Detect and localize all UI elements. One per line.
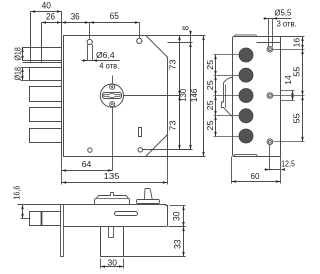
dim line 16,6 (22, 205, 24, 219)
ext line left edge down (231, 157, 233, 184)
svg-text:73: 73 (168, 59, 178, 70)
svg-text:12,5: 12,5 (281, 158, 295, 168)
bottom edge extension right (168, 156, 206, 158)
svg-text:40: 40 (42, 0, 51, 11)
dim line 40 (31, 11, 62, 13)
arrow O6.4 left (83, 59, 88, 62)
ext line circle center y=55.0 (214, 54, 240, 56)
faceplate back line (bottom view) (63, 205, 65, 257)
extension line 40-dim x=30.7 (30, 12, 32, 63)
svg-text:30: 30 (171, 212, 181, 222)
slot in body (bottom view) (115, 212, 138, 216)
ext line bottom right x=167.8 (167, 157, 169, 185)
ext line box right down (123, 259, 125, 269)
dim line 12,5 (265, 169, 281, 171)
arrow 16,6 bottom inside (21, 214, 24, 219)
bolt B1 (top, O18) (23, 48, 62, 61)
keyhole slot (dogbone) (104, 94, 120, 98)
dim line 60 (232, 181, 281, 183)
horizontal centerline to right (124, 95, 180, 97)
hole A O6.4 top-left (87, 39, 92, 44)
ext line body top right (170, 205, 186, 207)
dim line O18 top bolt (22, 48, 24, 61)
key cylinder outer circle (100, 84, 123, 107)
ext line bottom left x=61.4 (61, 157, 63, 185)
bolt circle 3 (dark) (239, 89, 253, 103)
svg-text:33: 33 (173, 240, 183, 250)
follower stem (145, 189, 153, 200)
dim shelf O5,5 (264, 18, 292, 20)
hanging mounting box (101, 227, 124, 257)
arrow O5,5 right (outside) (273, 17, 278, 20)
svg-text:130: 130 (178, 89, 188, 102)
faceplate bottom cap (61, 256, 64, 258)
bolt circle 2 (dark) (239, 68, 253, 82)
dim line 8+130 (190, 31, 192, 150)
svg-text:135: 135 (104, 171, 120, 181)
ext line circle center y=75.2 (214, 75, 240, 77)
svg-text:3 отв.: 3 отв. (277, 18, 297, 28)
ext line to hole A x=89.7 (89, 23, 91, 40)
bolt B4 (30, 108, 62, 122)
svg-text:26: 26 (46, 12, 55, 23)
vertical centerline above cylinder (112, 76, 114, 84)
ext line box left down (100, 259, 102, 269)
svg-text:73: 73 (168, 120, 178, 131)
ext line bolt B2 top (21, 67, 30, 69)
ext line 14-dim bottom (281, 100, 295, 102)
svg-text:55: 55 (291, 113, 301, 123)
ext line to hole B x=139.3 (139, 23, 141, 39)
dim line 64 (62, 170, 113, 172)
dim line 25x4 (215, 55, 217, 137)
svg-text:36: 36 (71, 11, 80, 22)
screw hole 2 inner (269, 94, 272, 97)
bolt circle 4 (dark) (239, 109, 253, 123)
top edge extension right (146, 35, 206, 37)
small rect slot (139, 128, 142, 137)
dim line 30+33 (183, 206, 185, 257)
svg-text:Ø5,5: Ø5,5 (275, 7, 292, 17)
ext line circle center y=95.5 (214, 95, 240, 97)
dome cap bottom line (97, 198, 129, 200)
hole B O6.4 top-right (137, 38, 142, 43)
svg-text:Ø18: Ø18 (13, 47, 23, 61)
ext line hole A right tangent (92, 45, 94, 61)
svg-text:30: 30 (108, 257, 118, 267)
cylinder screw top (110, 84, 115, 89)
ext hole3 center (274, 141, 305, 143)
plate top line y=42.9 (257, 42, 281, 44)
faceplate front edge / extension line x=61.4 (61, 12, 63, 157)
lock body outline (left view) (64, 36, 168, 157)
top lip strip (234, 35, 257, 37)
ext line hole tangent left (268, 19, 270, 47)
arrow 12,5 right inside-right (281, 168, 286, 171)
svg-text:16,6: 16,6 (11, 185, 21, 199)
cylinder dome with nub (95, 193, 130, 205)
key slot bar (103, 93, 122, 99)
bolt B3 (30, 87, 62, 102)
ext line body bottom right (169, 226, 186, 228)
box slot bottom (109, 237, 114, 239)
ext line body top to left (18, 204, 64, 206)
arrow O6.4 right (93, 59, 98, 62)
screw hole 3 inner (269, 140, 272, 143)
screw hole 1 outer (267, 46, 273, 52)
ext line bolt B2 bottom (21, 80, 30, 82)
screw hole 2 outer (267, 93, 273, 99)
svg-text:25: 25 (205, 80, 215, 90)
ext line hole A left tangent (87, 45, 89, 61)
box bottom ext right (33-dim) (124, 256, 186, 258)
left tab (bolt housing bump) (222, 77, 233, 117)
svg-text:Ø18: Ø18 (13, 67, 23, 81)
dim line 73+73 (179, 36, 181, 150)
body outline (bottom view) (64, 205, 168, 227)
svg-text:25: 25 (205, 120, 215, 130)
ext line hole3 center down (269, 145, 271, 171)
arrow 12,5 left outside (265, 168, 270, 171)
bolt B1 collar line (23, 62, 62, 64)
ext line circle center y=115.8 (214, 115, 240, 117)
vertical centerline below cylinder (112, 108, 114, 171)
bolt circle 1 (dark) (239, 48, 253, 62)
screw bottom center ring (111, 104, 113, 106)
screw hole 3 outer (267, 139, 273, 145)
svg-text:4 отв.: 4 отв. (99, 60, 119, 70)
arrow 16,6 top inside (21, 205, 24, 210)
ext line hole tangent right (272, 19, 274, 47)
dim/leader shelf O6.4 (82, 60, 120, 62)
ext line plate right edge down (280, 157, 282, 184)
svg-text:16: 16 (291, 38, 301, 48)
ext hole2 center (273, 95, 305, 97)
hole C O6.4 bottom-left (88, 148, 92, 152)
dim line 30 bottom (101, 266, 124, 268)
screw hole 1 inner (269, 48, 272, 51)
ext top edge right (281, 36, 305, 38)
bolt (bottom view) (30, 212, 61, 226)
bottom lip strip (234, 154, 258, 156)
arrow 8 top (outside) (189, 31, 192, 36)
dim line 135 (62, 182, 168, 184)
bolt circle 5 (dark) (239, 129, 253, 143)
svg-text:65: 65 (110, 11, 119, 22)
dim line 14 (292, 91, 294, 101)
box slot left (108, 227, 110, 238)
faceplate front line (bottom view) (60, 205, 62, 257)
svg-text:60: 60 (251, 171, 260, 181)
bolt B5 (30, 129, 62, 143)
svg-text:25: 25 (205, 60, 215, 70)
ext line bolt axis (21, 218, 31, 220)
faceplate/body outline (right view) (233, 37, 281, 157)
ext line y=149.7 (130-dim) (143, 149, 193, 151)
bolt B2 (O18) (30, 68, 62, 81)
dim line 26-36-65 (42, 22, 140, 24)
extension line 26-dim x=41.2 (41, 23, 43, 63)
ext line y=42.9 (8-dim) (168, 42, 193, 44)
follower base (137, 200, 160, 204)
hole D O6.4 bottom-right (138, 148, 142, 152)
dim line 146 (203, 36, 205, 157)
dim line 16+55+55 (302, 37, 304, 142)
cylinder screw bottom (110, 102, 115, 107)
ext line circle center y=136.0 (214, 136, 240, 138)
svg-text:64: 64 (82, 160, 92, 169)
svg-text:146: 146 (189, 88, 199, 102)
screw top center ring (111, 86, 113, 88)
box slot right (113, 227, 115, 238)
svg-text:8: 8 (180, 26, 190, 31)
arrow O5,5 left (outside) (264, 17, 269, 20)
svg-text:Ø6,4: Ø6,4 (96, 50, 115, 60)
arrow 8 bottom (outside) (189, 43, 192, 48)
svg-text:25: 25 (205, 100, 215, 110)
left tab inner line (225, 85, 227, 108)
svg-text:14: 14 (283, 75, 293, 85)
arrow 130 bottom (189, 145, 192, 150)
dim line O18 second bolt (22, 68, 24, 81)
ext line 14-dim top (281, 90, 295, 92)
diagonal line bottom-right (146, 135, 168, 157)
ext hole1 center (273, 49, 305, 51)
bolt step line (41, 212, 43, 226)
